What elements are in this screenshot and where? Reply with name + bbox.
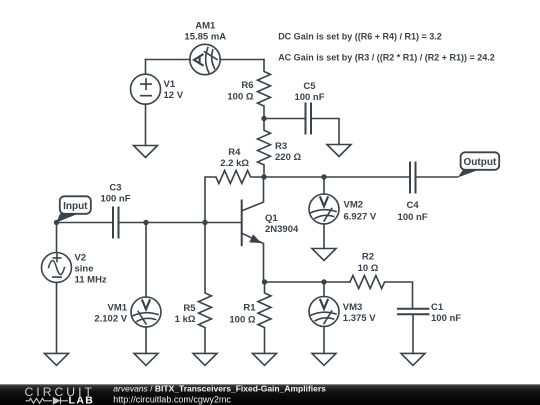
svg-text:R1: R1: [243, 303, 256, 314]
wire C5 to ground: [312, 119, 339, 145]
wire VM1 bottom stem: [145, 327, 147, 353]
footer logo resistor-diode squiggle: [26, 397, 69, 404]
svg-text:arvevans / BITX_Transceivers_F: arvevans / BITX_Transceivers_Fixed-Gain_…: [113, 384, 326, 394]
wire emitter rail: [265, 281, 351, 283]
resistor R2: [350, 276, 413, 309]
resistor R6: [258, 60, 271, 119]
svg-text:R4: R4: [228, 147, 241, 158]
wire VM3 bottom stem: [323, 327, 325, 354]
svg-text:R2: R2: [362, 252, 374, 263]
wire VM2 top stem: [323, 177, 325, 194]
voltmeter VM3: [309, 297, 339, 327]
ground under VM1: [134, 353, 158, 365]
capacitor C5: [306, 104, 312, 134]
svg-text:2.102 V: 2.102 V: [94, 313, 127, 324]
svg-text:R6: R6: [241, 80, 253, 91]
svg-text:V1: V1: [164, 79, 176, 90]
ground under VM3: [312, 353, 336, 365]
ground under R5: [193, 353, 217, 365]
svg-text:100 nF: 100 nF: [398, 212, 428, 223]
wire V1 top stem: [145, 60, 147, 75]
footer logo diode triangle: [53, 397, 61, 405]
svg-text:12 V: 12 V: [164, 90, 184, 101]
wire C1 bottom stem: [412, 315, 414, 353]
ammeter AM1: [190, 44, 220, 74]
svg-text:Input: Input: [63, 201, 88, 212]
wire V2 top stem: [56, 223, 58, 253]
svg-text:15.85 mA: 15.85 mA: [184, 31, 226, 42]
svg-text:1.375 V: 1.375 V: [343, 313, 376, 324]
svg-text:100 nF: 100 nF: [294, 92, 324, 103]
svg-text:C3: C3: [109, 183, 121, 194]
wire collector rail: [264, 176, 410, 178]
svg-text:C1: C1: [431, 302, 444, 313]
node emitter: [262, 279, 267, 284]
wire VM2 bottom stem: [323, 224, 325, 249]
node VM2 tap: [321, 174, 326, 179]
svg-text:11 MHz: 11 MHz: [75, 274, 107, 285]
wire base rail left: [57, 222, 113, 224]
svg-text:100 nF: 100 nF: [431, 313, 461, 324]
svg-text:C4: C4: [407, 200, 420, 211]
resistor R3: [258, 119, 271, 178]
voltage source V2: [42, 253, 72, 283]
wire top rail right (AM1 to R6): [220, 59, 264, 61]
ground under V2: [45, 353, 69, 365]
svg-text:VM1: VM1: [108, 303, 128, 314]
wire V1 bottom stem: [145, 104, 147, 145]
svg-text:R3: R3: [275, 141, 287, 152]
svg-text:6.927 V: 6.927 V: [344, 212, 377, 223]
capacitor C1: [398, 309, 429, 315]
svg-text:R5: R5: [183, 303, 196, 314]
flag Input: [57, 196, 91, 222]
svg-text:AC Gain is set by (R3 / ((R2 *: AC Gain is set by (R3 / ((R2 * R1) / (R2…: [278, 52, 495, 62]
wire rail to output: [416, 176, 458, 178]
ground under C5: [327, 145, 351, 157]
ground under VM2: [312, 249, 336, 261]
node input: [54, 220, 59, 225]
svg-text:DC Gain is set by ((R6 + R4) /: DC Gain is set by ((R6 + R4) / R1) = 3.2: [278, 31, 442, 41]
svg-text:2.2 kΩ: 2.2 kΩ: [220, 158, 249, 169]
transistor Q1: [242, 177, 264, 282]
node collector rail left: [261, 174, 266, 179]
resistor R4: [205, 171, 264, 223]
resistor R1: [258, 282, 271, 353]
wire VM3 top stem: [323, 282, 325, 297]
junction node dots: [54, 116, 327, 285]
node VM1 tap: [143, 220, 148, 225]
resistor R5: [199, 223, 212, 354]
svg-text:LAB: LAB: [69, 394, 95, 405]
svg-text:VM3: VM3: [343, 302, 363, 313]
capacitor C3: [113, 208, 119, 238]
svg-text:220 Ω: 220 Ω: [275, 152, 301, 163]
ground under V1: [134, 146, 158, 158]
svg-text:100 Ω: 100 Ω: [229, 314, 255, 325]
voltage source V1: [131, 74, 161, 104]
footer bar: [0, 384, 540, 405]
wire top rail left (V1 to AM1): [146, 59, 191, 61]
svg-text:C5: C5: [303, 81, 316, 92]
svg-text:100 Ω: 100 Ω: [227, 92, 253, 103]
svg-text:V2: V2: [75, 252, 87, 263]
ground under R1: [253, 353, 277, 365]
svg-text:sine: sine: [75, 263, 94, 274]
wire V2 bottom stem: [56, 283, 58, 354]
svg-text:Output: Output: [464, 157, 497, 168]
svg-text:http://circuitlab.com/cgwy2mc: http://circuitlab.com/cgwy2mc: [113, 395, 231, 405]
node VM3 tap: [321, 279, 326, 284]
svg-text:AM1: AM1: [195, 20, 216, 31]
wire node to C5: [264, 118, 305, 120]
voltmeter VM1: [131, 297, 161, 327]
node R5/R4 tap: [202, 220, 207, 225]
svg-text:VM2: VM2: [344, 200, 364, 211]
capacitor C4: [410, 163, 416, 193]
svg-text:Q1: Q1: [265, 213, 278, 224]
node R6/R3/C5: [261, 116, 266, 121]
svg-text:100 nF: 100 nF: [100, 194, 130, 205]
svg-text:10 Ω: 10 Ω: [358, 263, 379, 274]
ground under C1: [401, 353, 425, 365]
wire VM1 top stem: [145, 223, 147, 298]
svg-text:1 kΩ: 1 kΩ: [175, 314, 196, 325]
flag Output: [458, 152, 500, 177]
svg-text:2N3904: 2N3904: [265, 224, 299, 235]
voltmeter VM2: [309, 194, 339, 224]
wire base rail right: [120, 222, 242, 224]
